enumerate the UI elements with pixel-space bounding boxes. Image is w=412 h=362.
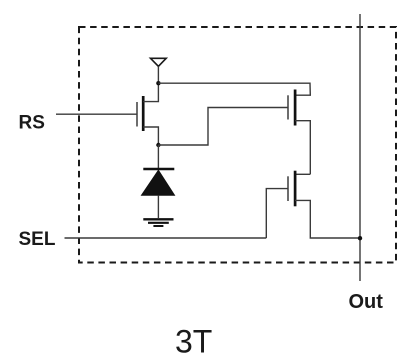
drain stub — [143, 83, 158, 101]
source stub — [143, 127, 158, 145]
transistor M2 (source follower) — [288, 90, 310, 175]
node VDD junction dot — [156, 81, 160, 85]
wire FD node to photodiode — [157, 145, 159, 168]
photodiode D1 — [142, 169, 175, 218]
svg-text:3T: 3T — [175, 324, 212, 360]
gate wire riser from SEL — [266, 189, 288, 238]
ground — [143, 219, 173, 226]
wire SEL — [65, 237, 267, 239]
channel bar — [294, 90, 297, 126]
pixel boundary dashed box — [79, 27, 396, 263]
svg-text:Out: Out — [349, 291, 384, 313]
channel bar — [142, 96, 145, 131]
VDD triangle — [151, 58, 167, 66]
transistor M3 (select) — [266, 171, 360, 238]
node FD junction dot — [156, 143, 160, 147]
transistor M1 (reset) — [137, 83, 158, 145]
wire VDD node to M2 drain — [158, 83, 310, 95]
anode triangle — [142, 170, 175, 195]
gate bar — [287, 95, 289, 119]
wire FD node to M2 gate — [158, 108, 288, 146]
gate bar — [287, 176, 289, 201]
output column line — [359, 14, 361, 281]
node output junction dot — [358, 236, 362, 240]
svg-text:RS: RS — [19, 112, 45, 133]
cathode bar — [143, 168, 174, 171]
source stub — [295, 121, 310, 175]
channel bar — [294, 171, 297, 207]
wire RS to M1 gate — [56, 113, 137, 115]
wire VDD triangle to node — [157, 66, 159, 83]
source stub to output — [295, 200, 360, 238]
drain stub — [295, 173, 310, 175]
gate bar — [136, 102, 138, 127]
wire anode to ground — [157, 195, 159, 218]
svg-text:SEL: SEL — [19, 229, 56, 250]
